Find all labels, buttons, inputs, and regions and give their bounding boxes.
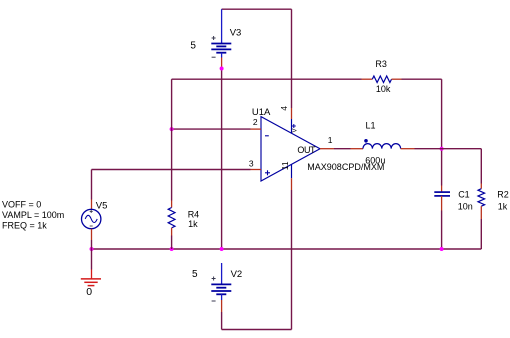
wire V2 bottom lead — [221, 294, 223, 300]
wire feedback horizontal — [172, 78, 362, 80]
svg-text:OUT: OUT — [297, 145, 316, 155]
svg-text:C1: C1 — [458, 190, 470, 200]
wire top rail — [222, 8, 292, 10]
pin lead C1 top — [441, 186, 443, 193]
svg-text:VOFF = 0: VOFF = 0 — [2, 200, 41, 210]
svg-text:0: 0 — [86, 286, 92, 298]
svg-text:V: V — [293, 128, 299, 132]
svg-text:2: 2 — [253, 117, 258, 127]
wire V3 top lead — [221, 9, 223, 43]
svg-text:FREQ = 1k: FREQ = 1k — [2, 221, 47, 231]
pin lead C1 bottom — [441, 196, 443, 211]
svg-text:R3: R3 — [375, 59, 387, 69]
junction dot output node — [440, 147, 444, 151]
wire V5 to bus — [91, 240, 93, 249]
pin 1 lead (output) — [320, 148, 334, 150]
junction dot V5 bus — [90, 247, 94, 251]
op-amp plus input mark — [265, 170, 270, 175]
source V5 circle — [82, 209, 101, 228]
pin 2 lead — [251, 128, 262, 130]
pin lead R2 top — [480, 184, 482, 189]
resistor R2 — [478, 189, 485, 207]
wire R3 to right corner — [402, 78, 442, 80]
wire V2 top lead — [221, 263, 223, 284]
wire R2 bottom to bus corner — [480, 219, 482, 249]
wire R4 to bus — [171, 236, 173, 250]
source V5 plus mark — [90, 210, 93, 213]
wire bottom rail — [222, 329, 292, 331]
ground symbol 0 — [81, 279, 101, 286]
svg-text:V3: V3 — [230, 28, 242, 39]
wire corner down to R2 — [480, 149, 482, 184]
svg-text:600u: 600u — [365, 155, 385, 165]
svg-text:1: 1 — [328, 135, 333, 145]
pin 4 lead — [291, 108, 293, 119]
pin lead V5 top — [91, 200, 93, 210]
svg-text:11: 11 — [280, 161, 290, 170]
svg-text:3: 3 — [249, 159, 254, 169]
svg-text:V2: V2 — [231, 269, 243, 280]
wire right vertical down to C1 — [441, 79, 443, 185]
battery V2 plus mark — [212, 277, 216, 281]
battery V3 plus mark — [212, 36, 216, 40]
junction dot R4 bus — [170, 247, 174, 251]
pin 11 lead (V-) — [291, 164, 293, 178]
source V5 sine — [85, 215, 97, 222]
wire bottom bus — [92, 248, 482, 250]
pin lead R3 right — [392, 78, 402, 80]
battery V3 minus mark — [212, 56, 216, 58]
wire bus to ground — [91, 249, 93, 270]
capacitor C1 — [434, 192, 450, 196]
wire V5 node vertical — [91, 170, 93, 200]
wire C1 to bus — [441, 211, 443, 250]
pin lead V5 bottom — [91, 229, 93, 240]
svg-text:1k: 1k — [188, 219, 198, 229]
svg-text:4: 4 — [279, 106, 289, 111]
pin lead R2 bottom — [480, 206, 482, 219]
svg-text:5: 5 — [190, 40, 196, 51]
pin lead R3 left — [362, 78, 373, 80]
pin 2 wire — [172, 128, 251, 130]
pin lead L1 right — [401, 148, 415, 150]
V+ mark at pin 4 — [292, 124, 296, 128]
wire output to L1 — [334, 148, 351, 150]
battery V2 — [211, 284, 231, 294]
ground lead — [91, 270, 93, 279]
wire V3 bottom lead — [221, 53, 223, 58]
svg-text:5: 5 — [192, 269, 198, 280]
svg-text:10n: 10n — [458, 202, 473, 212]
battery V2 minus mark — [212, 300, 216, 302]
source V5 minus mark — [90, 225, 93, 227]
resistor R3 — [372, 76, 391, 83]
svg-text:1k: 1k — [498, 202, 508, 212]
pin 3 wire — [92, 169, 251, 171]
pin lead R4 top — [171, 201, 173, 208]
pin 3 lead — [251, 169, 262, 171]
wire V3 to V2 vertical — [221, 68, 223, 249]
resistor R4 — [168, 208, 175, 228]
junction dot below V3 — [220, 67, 224, 71]
inductor L1 polarity dot — [364, 139, 368, 143]
junction dot C1 bus — [440, 247, 444, 251]
pin lead R4 bottom — [171, 228, 173, 236]
svg-text:R4: R4 — [188, 209, 200, 219]
wire V+ rail from top — [291, 9, 293, 108]
svg-text:L1: L1 — [366, 120, 376, 130]
inductor L1 coil — [363, 144, 401, 149]
junction dot pin2 node — [170, 127, 174, 131]
svg-text:V5: V5 — [96, 200, 108, 211]
pin lead L1 left — [351, 148, 364, 150]
svg-text:VAMPL = 100m: VAMPL = 100m — [2, 210, 64, 220]
svg-text:R2: R2 — [497, 190, 509, 200]
wire V- rail down — [291, 190, 293, 330]
svg-text:10k: 10k — [376, 84, 391, 94]
op-amp minus input mark — [265, 135, 269, 137]
op-amp U1A triangle — [261, 117, 320, 181]
junction dot V2 bus — [220, 247, 224, 251]
wire L1 to right corner — [415, 148, 482, 150]
wire pin2 node vertical down to R4 — [171, 79, 173, 200]
battery V3 — [211, 44, 231, 53]
